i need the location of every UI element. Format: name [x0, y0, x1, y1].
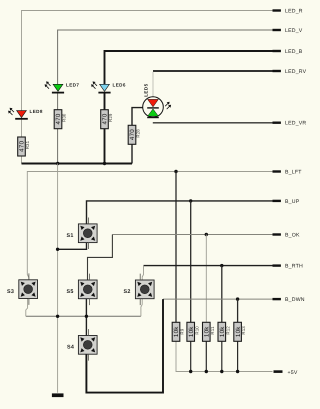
node R13 +5V junction [236, 370, 239, 373]
wire GND horizontal row [26, 315, 141, 317]
resistor R30 470 [54, 110, 66, 129]
svg-text:B_LFT: B_LFT [285, 170, 302, 176]
node R10 +5V junction [189, 370, 192, 373]
power +5V label [274, 370, 298, 376]
svg-text:R30: R30 [62, 113, 67, 122]
pushbutton S1 [67, 218, 98, 250]
svg-text:LED_VR: LED_VR [285, 121, 306, 127]
net label LED_V [273, 28, 303, 34]
node bus-R29 junction [103, 162, 106, 165]
wire net B_UP [87, 201, 273, 224]
wire net LED_VR [153, 122, 273, 124]
svg-text:S4: S4 [67, 345, 74, 351]
net label B_DWN [273, 297, 305, 303]
wire LED5 common cathode to R28 [132, 108, 143, 126]
wire cathode bus [22, 163, 133, 165]
wire S1 bottom to GND [58, 243, 87, 250]
svg-text:R13: R13 [241, 326, 246, 335]
net label LED_RV [273, 69, 307, 75]
net label B_RTH [273, 264, 303, 270]
wire R28 to bus [131, 144, 133, 163]
pushbutton S5 [67, 274, 98, 306]
resistor R9 10k [172, 322, 184, 341]
resistor R10 10k [187, 322, 199, 341]
wire B_DWN to S4 [86, 299, 163, 393]
svg-text:R12: R12 [225, 326, 230, 335]
svg-text:LED_V: LED_V [285, 28, 303, 34]
wire net LED_RV [153, 70, 273, 72]
svg-text:S2: S2 [124, 289, 131, 295]
svg-text:R11: R11 [210, 326, 215, 335]
svg-text:R29: R29 [108, 113, 113, 122]
pushbutton S3 [7, 273, 38, 305]
wire net B_RTH [144, 265, 273, 267]
svg-text:B_RTH: B_RTH [285, 264, 303, 270]
svg-text:R28: R28 [136, 129, 141, 138]
resistor R12 10k [218, 322, 230, 341]
node bus-R30 junction [56, 162, 59, 165]
wire S5 bottom to S4 top [85, 298, 87, 335]
wire LED6 cathode to R29 [104, 93, 106, 110]
net label LED_VR [273, 121, 307, 127]
wire net +5V rail [176, 341, 273, 371]
wire B_UP to R10 [190, 201, 192, 322]
wire net B_OK label side [112, 234, 272, 236]
wire GND vertical [57, 164, 59, 393]
svg-text:R10: R10 [194, 326, 199, 335]
node B_DWN pull-up junction [236, 297, 239, 300]
resistor R28 470 [128, 125, 140, 144]
resistor R29 470 [101, 110, 113, 129]
wire B_OK to R11 [205, 235, 207, 323]
resistor R31 470 [18, 137, 30, 156]
LED LED5 bicolor red/green [143, 83, 171, 118]
svg-text:LED7: LED7 [66, 83, 79, 88]
svg-text:B_OK: B_OK [285, 233, 300, 239]
net label LED_R [273, 9, 303, 15]
wire net B_DWN label side [163, 298, 273, 300]
svg-text:LED5: LED5 [143, 83, 148, 96]
node B_OK pull-up junction [205, 233, 208, 236]
wire B_DWN to R13 [237, 299, 239, 322]
wire net B_LFT [27, 172, 272, 280]
node S1-GND junction [56, 248, 59, 251]
wire LED7 cathode to R30 [57, 93, 59, 110]
resistor R11 10k [203, 322, 215, 341]
wire net LED_R [22, 11, 273, 111]
wire B_OK to S5 [88, 235, 113, 281]
wire net LED_V [58, 30, 273, 84]
net label B_LFT [273, 170, 303, 176]
wire R30 to bus [57, 129, 59, 164]
node B_LFT pull-up junction [174, 170, 177, 173]
wire R11 to +5V [205, 341, 207, 371]
svg-text:S5: S5 [67, 289, 74, 295]
LED LED6 blue [91, 81, 126, 93]
LED LED7 green [45, 81, 80, 93]
svg-text:LED_R: LED_R [285, 9, 303, 15]
LED LED8 red [8, 108, 43, 120]
wire net LED_B [105, 51, 273, 84]
pushbutton S4 [67, 329, 97, 361]
node GND row left junction [56, 315, 59, 318]
node R12 +5V junction [220, 370, 223, 373]
svg-text:B_DWN: B_DWN [285, 297, 305, 303]
wire B_RTH to S2 [142, 266, 143, 281]
wire S3 bottom to GND row [26, 299, 28, 317]
svg-text:S3: S3 [7, 289, 14, 295]
net label B_UP [273, 199, 300, 205]
node GND row right junction [85, 315, 88, 318]
svg-text:R31: R31 [25, 140, 30, 149]
wire R12 to +5V [221, 341, 223, 371]
wire R29 to bus [104, 129, 106, 164]
wire LED8 cathode to R31 [21, 120, 23, 138]
svg-text:+5V: +5V [288, 370, 298, 376]
svg-text:LED6: LED6 [113, 83, 126, 88]
resistor R13 10k [234, 322, 246, 341]
svg-text:LED8: LED8 [30, 109, 43, 114]
wire R31 to bus [21, 156, 23, 164]
wire B_LFT to R9 [175, 172, 177, 323]
svg-text:LED_B: LED_B [285, 49, 303, 55]
svg-text:LED_RV: LED_RV [285, 69, 307, 75]
ground [52, 393, 64, 397]
pushbutton S2 [124, 274, 155, 306]
net label LED_B [273, 49, 303, 55]
wire R13 to +5V [237, 341, 239, 371]
node R11 +5V junction [205, 370, 208, 373]
node B_UP pull-up junction [189, 199, 192, 202]
svg-text:S1: S1 [67, 233, 74, 239]
svg-text:R9: R9 [180, 328, 185, 334]
node B_RTH pull-up junction [220, 264, 223, 267]
wire R10 to +5V [190, 341, 192, 371]
wire B_RTH to R12 [221, 266, 223, 323]
svg-text:B_UP: B_UP [285, 199, 300, 205]
wire S2 bottom to GND row [141, 298, 142, 316]
net label B_OK [273, 233, 300, 239]
